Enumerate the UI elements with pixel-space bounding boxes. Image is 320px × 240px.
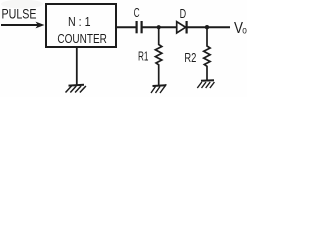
svg-text:C: C <box>134 6 140 20</box>
resistor R2 <box>184 27 210 80</box>
wire: counter output to capacitor <box>117 26 136 28</box>
wire: pulse input arrow <box>1 22 45 29</box>
node junction at R2 <box>205 25 209 29</box>
svg-text:PULSE: PULSE <box>2 5 37 21</box>
node PULSE input label <box>2 5 37 21</box>
resistor R1 <box>138 27 162 85</box>
svg-text:R2: R2 <box>184 50 196 65</box>
wire: counter to ground <box>76 48 78 85</box>
diode D <box>177 6 187 33</box>
svg-text:N : 1: N : 1 <box>68 14 91 29</box>
wire: capacitor to diode <box>143 26 177 28</box>
node Vo output label <box>234 20 247 37</box>
ground under R1 <box>151 84 166 93</box>
svg-text:COUNTER: COUNTER <box>57 31 107 46</box>
capacitor C <box>134 6 142 33</box>
node junction at R1 <box>157 25 161 29</box>
svg-text:o: o <box>242 26 247 37</box>
svg-text:D: D <box>180 6 187 21</box>
ground under R2 <box>197 80 214 88</box>
wire: diode to output <box>188 26 231 28</box>
ground under counter <box>66 85 86 93</box>
counter block U1: N:1 COUNTER <box>46 4 116 47</box>
svg-text:R1: R1 <box>138 48 149 63</box>
